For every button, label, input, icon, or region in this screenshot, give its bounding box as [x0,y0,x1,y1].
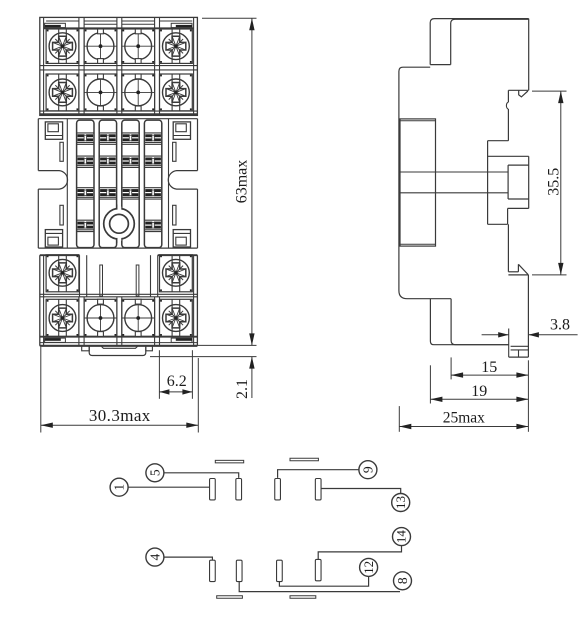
wire clamp plate top-right [171,23,192,27]
contact blade 4 [210,560,216,581]
wire contact to terminal13 [321,489,401,494]
svg-text:9: 9 [360,466,375,473]
svg-text:19: 19 [471,383,487,400]
svg-text:3.8: 3.8 [550,317,570,334]
svg-text:30.3max: 30.3max [89,406,151,425]
wire contact to terminal12 [279,576,368,586]
svg-text:8: 8 [395,577,410,584]
pin contact row y193 [100,189,116,196]
svg-text:12: 12 [361,561,376,574]
terminal cell row3 col4 [160,255,193,292]
pin contact row y138 [78,134,94,141]
pin contact row y225 rail4 [145,222,161,229]
wire terminal1 to contact [128,486,209,488]
svg-text:6.2: 6.2 [167,373,187,390]
terminal cell row3 col1 [46,255,79,292]
pin contact row y193 [123,189,139,196]
relay body notch [80,255,158,297]
terminal cell col3 [122,29,155,63]
terminal cell col1 [46,29,79,63]
screw terminal at 62,92 [49,74,76,111]
dimension 25max [399,406,528,432]
wire clamp plate bottom-left [45,338,66,342]
terminal 12 [360,558,378,576]
terminal 13 [392,494,410,512]
guide hole at 100,92 [84,74,116,111]
guide hole at 100,318 [84,299,116,336]
pin contact row y161 [123,158,139,165]
guide hole at 138,318 [122,299,154,336]
wire clamp plate top-left [45,23,66,27]
side relay block [400,119,508,246]
terminal cell col3 [122,74,155,111]
row separator lines [40,65,198,67]
side bottom rail pocket [509,329,529,358]
terminal cell col2 [84,74,117,111]
terminal 8 [394,572,412,590]
mount bracket top-right [173,122,190,139]
movable contact bar pole3 [217,596,243,599]
bottom block dividers [79,297,160,346]
terminal cell row4 col3 [122,299,155,336]
wire contact to terminal14 [318,546,401,560]
pin rails [77,120,162,248]
mount bracket bottom-right [173,230,190,247]
terminal cell row4 col2 [84,299,117,336]
dimension 35.5 [532,91,567,275]
dimension 19 [430,365,528,403]
dimension 3.8 [482,317,578,338]
contact blade 12b [277,560,283,581]
svg-text:2.1: 2.1 [234,379,251,399]
terminal cell col4 [160,74,193,111]
pin contact row y225 rail1 [78,222,94,229]
pin contact row y193 [78,189,94,196]
side lower claw [508,224,528,357]
screw terminal at 176,46 [163,29,190,63]
contact blade 8 [315,559,321,580]
dimension 63max [194,18,257,345]
pin contact row y193 [145,189,161,196]
svg-text:63max: 63max [234,160,251,204]
terminal cell row4 col4 [160,299,193,336]
screw terminal at 176,92 [163,74,190,111]
contact blade 9 [275,479,281,500]
svg-text:1: 1 [112,484,127,491]
side profile top slot [430,19,529,65]
screw terminal at 62,318 [49,299,76,336]
screw terminal at 62,46 [49,29,76,63]
guide hole at 100,46 [84,29,116,63]
guide hole at 138,92 [122,74,154,111]
contact row lines [77,133,162,232]
wire clamp plate bottom-right [171,338,192,342]
svg-text:13: 13 [393,496,408,509]
side right edge and DIN claws [506,19,528,141]
pin contact row y161 [78,158,94,165]
svg-text:25max: 25max [443,409,485,426]
svg-text:5: 5 [147,469,162,476]
terminal cell col4 [160,29,193,63]
wire terminal5 to contact [164,473,239,478]
side profile left body [399,67,509,345]
bottom terminal block outline [40,255,198,346]
screw terminal at 62,273 [49,255,76,292]
terminal cell col1 [46,74,79,111]
wire terminal4 to contact [164,557,213,560]
movable contact bar pole1 [215,460,243,463]
svg-text:15: 15 [481,359,497,376]
contact blade 5 [236,479,242,500]
center mounting hole [104,205,135,244]
dimension 2.1 [150,357,257,399]
bottom tab [82,346,153,356]
contact blade 1 [210,479,216,500]
pin contact row y138 [123,134,139,141]
pin contact row y161 [145,158,161,165]
terminal 1 [110,478,128,496]
svg-text:14: 14 [394,530,409,544]
dimension 6.2 [159,350,192,399]
terminal 14 [393,528,411,546]
side slots [60,142,176,225]
middle section outline [38,119,197,248]
terminal 9 [359,461,377,479]
svg-text:4: 4 [147,553,162,560]
dimension 15 [451,357,528,431]
guide hole at 138,46 [122,29,154,63]
movable contact bar pole2 [290,458,318,461]
terminal cell col2 [84,29,117,63]
mount bracket bottom-left [45,230,62,247]
wire contact to terminal9 [278,470,359,478]
side rail spigot block [488,141,529,225]
screw terminal at 176,318 [163,299,190,336]
top terminal block outline [40,17,198,115]
wire contact to terminal8 [239,582,400,592]
dimension 30.3max [41,347,199,433]
pin contact row y161 [100,158,116,165]
contact blade 12a [236,560,242,581]
movable contact bar pole4 [290,596,316,599]
terminal cell row4 col1 [46,299,79,336]
terminal 5 [146,464,164,482]
pin contact row y138 [145,134,161,141]
terminal 4 [146,548,164,566]
contact blade 13 [315,479,321,500]
mount bracket top-left [45,122,62,139]
screw terminal at 176,273 [163,255,190,292]
pin contact row y138 [100,134,116,141]
svg-text:35.5: 35.5 [545,168,562,196]
